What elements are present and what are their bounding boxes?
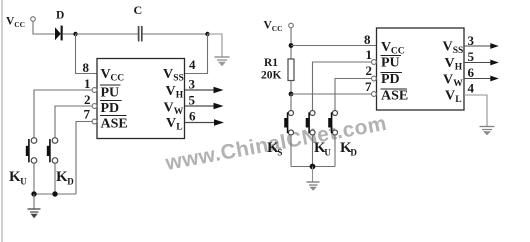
svg-text:V: V: [101, 67, 111, 82]
svg-text:D: D: [56, 10, 64, 22]
svg-text:SS: SS: [453, 46, 464, 56]
U1 label VW: [164, 101, 184, 118]
U2 pin 2 bubble: [372, 76, 377, 81]
node B junction dot: [205, 32, 209, 36]
svg-text:V: V: [166, 84, 176, 99]
svg-text:H: H: [176, 91, 184, 101]
ground below VL: [480, 127, 495, 136]
svg-text:R1: R1: [264, 57, 278, 69]
push button KS: [284, 111, 293, 136]
wire pin 1 to button KU: [34, 90, 92, 138]
U1 label ASE with overline: [100, 116, 128, 132]
wire KD to ground rail right: [334, 135, 336, 166]
wire KU to ground rail: [33, 163, 35, 194]
U2 label VCC: [381, 40, 405, 57]
U1 label VH: [166, 84, 184, 101]
U2 label VW: [443, 73, 463, 90]
svg-text:V: V: [381, 40, 391, 55]
svg-text:7: 7: [365, 79, 372, 94]
pin number 1 (U2): [366, 47, 373, 62]
capacitor C: [139, 26, 142, 42]
label KU (left): [9, 169, 27, 187]
svg-text:V: V: [445, 89, 455, 104]
push button KU (right): [306, 111, 315, 136]
U2 label VSS: [443, 40, 464, 57]
U1 label VL: [166, 116, 183, 133]
wire capacitor to node B: [143, 33, 208, 35]
wire U2 pin 4 to ground: [464, 95, 487, 126]
pin number 3 (U1): [189, 77, 196, 92]
label VCC right: [264, 20, 283, 34]
wire U2 pin 6 with arrow: [464, 76, 499, 82]
U1 label PU with overline: [100, 85, 121, 101]
diode D: [55, 26, 63, 41]
pin number 8 (U2): [364, 32, 371, 47]
U2 label VL: [445, 89, 462, 106]
svg-text:S: S: [277, 147, 282, 157]
svg-text:5: 5: [468, 49, 475, 64]
wire KD to ground rail: [54, 163, 56, 194]
ground rail left circuit: [34, 193, 76, 195]
node C junction dot (pin8 tap): [289, 43, 294, 48]
svg-text:CC: CC: [110, 74, 124, 84]
svg-text:CC: CC: [14, 20, 25, 29]
pin number 6 (U1): [189, 109, 196, 124]
svg-text:2: 2: [366, 63, 373, 78]
svg-text:SS: SS: [173, 74, 184, 84]
wire U2 pin 5 with arrow: [464, 60, 499, 66]
svg-text:PU: PU: [101, 86, 120, 101]
svg-text:7: 7: [84, 106, 91, 121]
svg-text:4: 4: [468, 81, 475, 96]
terminal VCC right: [289, 23, 294, 28]
svg-text:8: 8: [83, 60, 90, 75]
U2 label PU with overline: [381, 56, 402, 71]
ground right circuit bottom: [307, 167, 320, 191]
label KD (left): [56, 169, 74, 187]
svg-text:ASE: ASE: [101, 117, 128, 132]
pin number 3 (U2): [468, 33, 475, 48]
terminal VCC left: [31, 17, 36, 22]
wire node D down to button KS: [290, 94, 292, 110]
label D: [56, 10, 64, 22]
svg-text:PU: PU: [381, 56, 400, 71]
svg-text:6: 6: [468, 65, 475, 80]
junction dot KU rail: [31, 191, 36, 196]
push button KD (right): [328, 111, 337, 136]
svg-text:V: V: [163, 67, 173, 82]
wire diode to node A: [63, 33, 76, 35]
svg-text:W: W: [453, 79, 463, 89]
svg-text:L: L: [455, 95, 461, 105]
wire R1 down to node D: [290, 81, 292, 95]
wire node A down to pin 8: [76, 34, 98, 74]
svg-text:C: C: [134, 3, 143, 17]
svg-text:4: 4: [189, 57, 196, 72]
pin number 4 (U2): [468, 81, 475, 96]
U1 pin 2 bubble: [92, 104, 97, 109]
U2 pin 7 bubble: [372, 92, 377, 97]
svg-text:ASE: ASE: [381, 89, 408, 104]
svg-text:6: 6: [189, 109, 196, 124]
junction dot ground rail right: [310, 164, 316, 170]
svg-text:V: V: [166, 116, 176, 131]
wire U2 pin 3 with arrow: [464, 43, 499, 49]
wire node A to capacitor: [76, 33, 139, 35]
label VCC left: [6, 16, 25, 30]
wire node D to pin 7 (U2): [291, 93, 371, 95]
U1 label PD with overline: [100, 101, 122, 117]
resistor R1: [288, 59, 294, 81]
svg-text:1: 1: [84, 76, 91, 91]
node A junction dot: [73, 32, 77, 36]
watermark www.ChinaICNet.com: [163, 112, 389, 175]
pin number 5 (U1): [189, 93, 196, 108]
label KU (right): [314, 140, 331, 158]
svg-text:2: 2: [84, 92, 91, 107]
svg-text:K: K: [56, 169, 68, 185]
svg-text:1: 1: [366, 47, 373, 62]
wire U2 pin 1 to button KU: [313, 62, 372, 110]
wire U1 pin 6 with arrow: [185, 119, 224, 125]
pin number 7 (U2): [365, 79, 372, 94]
IC U1 body (left): [97, 59, 185, 139]
wire U1 pin 3 with arrow: [185, 87, 224, 93]
label KS: [267, 140, 282, 158]
wire node B down to pin 4: [185, 34, 208, 74]
svg-text:U: U: [324, 147, 331, 157]
svg-text:K: K: [9, 169, 21, 185]
pin number 6 (U2): [468, 65, 475, 80]
U1 label VCC: [101, 67, 125, 84]
U1 label VSS: [163, 67, 184, 84]
U1 pin 1 bubble: [92, 88, 97, 93]
U2 label ASE with overline: [381, 89, 409, 104]
svg-text:V: V: [164, 101, 174, 116]
pin number 4 (U1): [189, 57, 196, 72]
wire U2 pin 2 to button KD: [335, 79, 372, 111]
svg-text:V: V: [443, 73, 453, 88]
IC U2 body (right): [377, 28, 465, 110]
wire terminal down and right to diode: [33, 21, 55, 34]
svg-text:CC: CC: [272, 24, 283, 33]
ground left circuit: [28, 194, 41, 218]
pin number 1 (U1): [84, 76, 91, 91]
svg-text:H: H: [455, 63, 463, 73]
U2 label VH: [445, 56, 463, 73]
svg-text:D: D: [67, 177, 74, 187]
pin number 5 (U2): [468, 49, 475, 64]
wire KS to ground rail right: [290, 135, 292, 166]
pin number 7 (U1): [84, 106, 91, 121]
ground rail right circuit: [291, 166, 335, 168]
label KD (right): [340, 140, 357, 158]
label R1: [264, 57, 278, 69]
pin number 2 (U2): [366, 63, 373, 78]
svg-text:20K: 20K: [261, 70, 282, 82]
U1 pin 7 bubble: [92, 119, 97, 124]
label C: [134, 3, 143, 17]
wire node B to top-right ground: [208, 34, 223, 57]
wire KU to ground rail right: [312, 135, 314, 166]
svg-text:V: V: [445, 56, 455, 71]
push button KU (left): [26, 138, 37, 164]
pin number 2 (U1): [84, 92, 91, 107]
svg-text:3: 3: [189, 77, 196, 92]
svg-text:5: 5: [189, 93, 196, 108]
wire pin 2 to button KD: [55, 106, 92, 138]
ground top right: [215, 57, 230, 66]
node D junction dot: [289, 92, 294, 97]
push button KD (left): [47, 138, 58, 164]
svg-text:D: D: [350, 147, 357, 157]
svg-text:PD: PD: [101, 101, 120, 116]
wire U1 pin 5 with arrow: [185, 103, 224, 109]
svg-text:PD: PD: [381, 72, 400, 87]
svg-text:U: U: [20, 177, 27, 187]
svg-text:8: 8: [364, 32, 371, 47]
wire pin 7 to ground rail: [76, 122, 92, 195]
label 20K: [261, 70, 282, 82]
wire VCC down to R1: [290, 28, 292, 59]
pin number 8 (U1): [83, 60, 90, 75]
svg-text:V: V: [443, 40, 453, 55]
left page border line: [1, 0, 3, 242]
wire node C to pin 8 (U2): [291, 45, 377, 47]
U2 pin 1 bubble: [372, 60, 377, 65]
U2 label PD with overline: [381, 72, 403, 87]
junction dot KD rail: [52, 191, 57, 196]
svg-text:L: L: [176, 123, 182, 133]
